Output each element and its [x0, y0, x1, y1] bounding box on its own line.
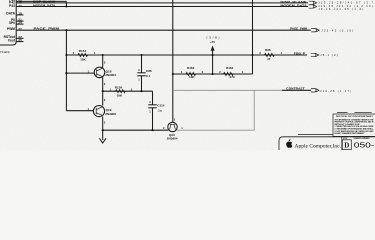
svg-text:R154: R154 — [79, 49, 87, 53]
title block: notice box — [333, 113, 375, 137]
svg-text:050-: 050- — [354, 141, 375, 150]
svg-text:CONTRAST: CONTRAST — [286, 87, 305, 91]
wire y91 (R159 row) — [103, 90, 153, 92]
svg-text:R36: R36 — [265, 48, 271, 52]
wire Q18 base — [66, 72, 94, 74]
transistor Q20 2N3904 — [163, 118, 183, 141]
wire Q19 collector — [102, 91, 104, 105]
transistor Q19 2N3906 — [88, 98, 117, 124]
svg-text:IN ANY MANNER DETRIMENT: IN ANY MANNER DETRIMENT — [335, 132, 366, 135]
svg-text:Apple Computer,Inc.: Apple Computer,Inc. — [295, 144, 342, 150]
svg-text:2N3904: 2N3904 — [167, 137, 178, 141]
resistor R162 470 — [219, 66, 244, 79]
flag connector PAGE_PWM — [311, 29, 319, 32]
junction dot C86 bottom — [140, 90, 142, 92]
wire CONTRAST — [173, 89, 282, 91]
junction dot at C86 — [140, 54, 142, 56]
svg-text:(3/8): (3/8) — [207, 35, 220, 39]
wire PAGE_PWM — [16, 29, 311, 31]
pin DATA, number 18 — [6, 12, 23, 16]
flag connector CONTRAST — [311, 89, 319, 92]
svg-text:10K: 10K — [117, 94, 123, 98]
wire Q19 emitter — [102, 117, 104, 140]
junction dot at +5V — [212, 54, 214, 56]
wire MODEM_DATA — [16, 6, 308, 8]
svg-text:DATA: DATA — [6, 12, 15, 16]
flag connector MODEM_DATA — [309, 5, 317, 8]
svg-text:J19-26 (1,17): J19-26 (1,17) — [320, 89, 351, 93]
pin PWM, number 27 — [7, 27, 22, 31]
svg-text:47: 47 — [267, 57, 271, 61]
svg-text:SP0: SP0 — [9, 21, 15, 25]
svg-text:10K: 10K — [189, 75, 195, 79]
resistor R163 10K — [181, 66, 204, 79]
vertical rail x252.5 (top to R162 row) — [252, 0, 254, 74]
svg-text:470: 470 — [230, 75, 235, 79]
svg-text:D: D — [344, 142, 349, 150]
svg-text:MODEM_DATA: MODEM_DATA — [280, 3, 307, 7]
pin P43, pin number 29 — [9, 4, 22, 8]
junction dot rail/R163 — [172, 73, 174, 75]
svg-text:R159: R159 — [115, 86, 123, 90]
flag connector FDB_P — [311, 53, 319, 56]
svg-text:MODEM_DATA: MODEM_DATA — [33, 3, 56, 7]
wire DISP_BLANK — [16, 2, 308, 4]
svg-text:P43: P43 — [9, 4, 15, 8]
svg-text:.1u: .1u — [157, 108, 162, 112]
svg-text:+5V: +5V — [210, 40, 215, 44]
resistor R36 47 — [259, 48, 282, 61]
vertical rail x66.4 (PAGE_PWM down to Q19 base) — [65, 30, 67, 111]
wire Q18 collector — [102, 55, 104, 68]
svg-text:J21-42 (2,10): J21-42 (2,10) — [321, 29, 353, 33]
svg-text:PAGE_PWM: PAGE_PWM — [290, 27, 307, 31]
IC U1 boundary (left edge, partially cut) — [0, 0, 16, 45]
wire Q19 base — [66, 110, 93, 112]
junction dot C114 bottom — [151, 129, 153, 131]
wire P41 stub — [16, 0, 66, 2]
junction dot PAGE_PWM/rail — [65, 29, 67, 31]
title block: company cell — [279, 137, 375, 150]
junction dot +5V/R163/R162 — [212, 73, 214, 75]
wire tick joining rows at x66.4 — [65, 1, 67, 6]
junction dot Q19 emitter row — [102, 129, 104, 131]
svg-text:9.1: 9.1 — [146, 74, 151, 78]
transistor Q18 2N3904 — [88, 60, 117, 86]
svg-text:Xout: Xout — [8, 38, 16, 42]
svg-text:PAGE_PWM: PAGE_PWM — [34, 27, 60, 31]
title block: cell divider line — [298, 134, 333, 136]
pin RSTout, number 22 — [4, 35, 24, 39]
wire Q20 right (emitter) — [177, 129, 254, 131]
wire contrast vertical — [253, 90, 255, 130]
pin P0, number 21 — [11, 18, 24, 22]
junction dot rail/R154 — [65, 54, 67, 56]
svg-text:2N3904: 2N3904 — [105, 73, 116, 77]
resistor R154 10K — [73, 49, 96, 61]
junction dot at x102 — [102, 54, 104, 56]
resistor R159 10K — [110, 86, 133, 98]
power +5V (3/8) — [207, 35, 220, 74]
svg-text:2N3906: 2N3906 — [105, 112, 116, 116]
svg-text:C86: C86 — [146, 69, 152, 73]
rev row dashes above notice box — [337, 112, 348, 114]
pin P42, pin number 28 — [9, 0, 22, 4]
junction dot at x252.5 — [251, 54, 253, 56]
svg-text:FDB_P: FDB_P — [294, 51, 305, 55]
svg-text:10K: 10K — [80, 57, 86, 61]
pin Xout, number 25 — [8, 38, 24, 42]
vertical rail x173 — [172, 0, 174, 123]
svg-text:YS EN): YS EN) — [0, 50, 10, 54]
pin P41 (top, cut off) — [9, 0, 22, 2]
wire y130 (emitter row to Q20) — [103, 129, 169, 131]
junction dot Q18 emitter/R159 — [102, 90, 104, 92]
svg-text:PWM: PWM — [7, 27, 15, 31]
junction dot on MODEM_DATA at x66.4 — [65, 5, 67, 7]
capacitor C86 9.1 — [137, 55, 152, 91]
svg-text:R163: R163 — [187, 66, 195, 70]
svg-text:C114: C114 — [157, 103, 164, 107]
size box D — [342, 140, 351, 150]
wire y74 (R163/R162 row) — [173, 73, 253, 75]
pin SP0, number 24 — [9, 21, 24, 25]
flag connector DISP_BLANK — [309, 1, 317, 4]
svg-text:R162: R162 — [226, 66, 234, 70]
capacitor C114 .1u — [148, 91, 164, 130]
wire Q18 emitter — [102, 77, 104, 91]
main wire y55 — [66, 54, 307, 56]
ground below Q19 — [99, 138, 106, 143]
junction dot Q18 base/rail — [65, 72, 67, 74]
svg-text:NOTICE OF PROPRIETARY: NOTICE OF PROPRIETARY — [336, 115, 374, 118]
Apple logo — [286, 139, 292, 148]
svg-text:29: 29 — [18, 4, 22, 8]
